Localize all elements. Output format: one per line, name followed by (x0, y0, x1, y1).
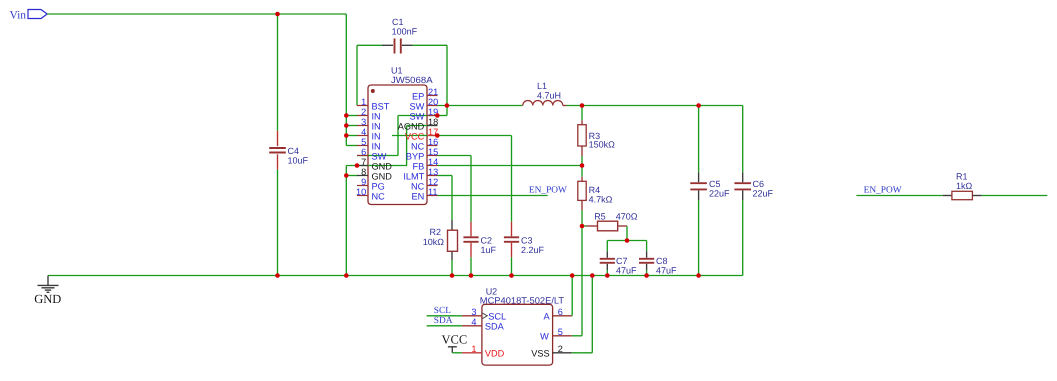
svg-text:4: 4 (361, 127, 366, 137)
svg-text:ILMT: ILMT (403, 171, 424, 181)
svg-text:SW: SW (409, 111, 424, 121)
svg-text:9: 9 (361, 177, 366, 187)
svg-text:11: 11 (428, 187, 438, 197)
svg-text:SW: SW (409, 101, 424, 111)
svg-text:4.7kΩ: 4.7kΩ (589, 195, 613, 205)
svg-text:1uF: 1uF (481, 245, 497, 255)
svg-text:47uF: 47uF (616, 266, 637, 276)
svg-text:2: 2 (558, 344, 563, 354)
svg-text:22uF: 22uF (709, 189, 730, 199)
svg-text:IN: IN (372, 141, 381, 151)
svg-text:L1: L1 (537, 81, 547, 91)
svg-text:C3: C3 (521, 236, 533, 246)
svg-text:MCP4018T-502E/LT: MCP4018T-502E/LT (480, 296, 565, 306)
svg-text:14: 14 (428, 157, 438, 167)
svg-text:IN: IN (372, 131, 381, 141)
svg-text:VCC: VCC (442, 332, 468, 346)
svg-text:SW: SW (372, 151, 387, 161)
svg-text:3: 3 (361, 117, 366, 127)
svg-text:SDA: SDA (434, 316, 453, 326)
svg-text:16: 16 (428, 137, 438, 147)
svg-text:EN: EN (412, 191, 425, 201)
svg-text:5: 5 (361, 137, 366, 147)
svg-text:EN_POW: EN_POW (529, 185, 567, 195)
svg-text:2: 2 (361, 107, 366, 117)
svg-text:6: 6 (558, 307, 563, 317)
svg-text:47uF: 47uF (656, 266, 677, 276)
svg-text:10kΩ: 10kΩ (423, 237, 445, 247)
svg-text:20: 20 (428, 97, 438, 107)
svg-text:C2: C2 (481, 236, 493, 246)
svg-text:NC: NC (372, 191, 386, 201)
svg-text:A: A (543, 312, 550, 322)
svg-text:IN: IN (372, 121, 381, 131)
svg-text:EN_POW: EN_POW (864, 185, 902, 195)
svg-text:U1: U1 (391, 66, 403, 76)
svg-text:10: 10 (356, 187, 366, 197)
svg-text:W: W (540, 332, 549, 342)
svg-text:7: 7 (361, 157, 366, 167)
svg-text:NC: NC (411, 141, 425, 151)
svg-text:VCC: VCC (405, 131, 425, 141)
svg-text:R5: R5 (594, 211, 606, 221)
svg-text:18: 18 (428, 117, 438, 127)
svg-text:C6: C6 (753, 179, 765, 189)
svg-text:470Ω: 470Ω (616, 211, 638, 221)
svg-text:BST: BST (372, 101, 390, 111)
svg-text:3: 3 (471, 307, 476, 317)
svg-text:IN: IN (372, 111, 381, 121)
svg-text:SDA: SDA (485, 322, 505, 332)
svg-text:C5: C5 (709, 179, 721, 189)
svg-text:VSS: VSS (531, 349, 549, 359)
svg-text:NC: NC (411, 181, 425, 191)
svg-text:VDD: VDD (485, 349, 505, 359)
svg-text:EP: EP (412, 91, 424, 101)
svg-text:100nF: 100nF (392, 27, 418, 37)
svg-text:R4: R4 (589, 185, 601, 195)
svg-text:1: 1 (361, 97, 366, 107)
svg-text:6: 6 (361, 147, 366, 157)
svg-text:FB: FB (413, 161, 425, 171)
svg-text:PG: PG (372, 181, 385, 191)
svg-text:10uF: 10uF (288, 155, 309, 165)
svg-text:BYP: BYP (406, 151, 424, 161)
svg-text:R1: R1 (956, 172, 968, 182)
svg-text:5: 5 (558, 327, 563, 337)
svg-text:Vin: Vin (10, 10, 27, 22)
svg-text:15: 15 (428, 147, 438, 157)
svg-text:JW5068A: JW5068A (391, 75, 433, 85)
svg-text:21: 21 (428, 87, 438, 97)
svg-text:SCL: SCL (434, 306, 451, 316)
svg-text:1kΩ: 1kΩ (956, 181, 973, 191)
svg-text:C8: C8 (656, 256, 668, 266)
svg-text:2.2uF: 2.2uF (521, 245, 545, 255)
svg-text:C1: C1 (392, 17, 404, 27)
svg-text:C7: C7 (616, 256, 628, 266)
svg-text:12: 12 (428, 177, 438, 187)
svg-text:13: 13 (428, 167, 438, 177)
svg-text:AGND: AGND (398, 121, 425, 131)
svg-text:GND: GND (34, 292, 61, 306)
svg-text:SCL: SCL (488, 312, 506, 322)
svg-text:R2: R2 (429, 227, 441, 237)
svg-text:C4: C4 (288, 146, 300, 156)
svg-text:22uF: 22uF (753, 189, 774, 199)
svg-text:4.7uH: 4.7uH (537, 91, 561, 101)
svg-text:150kΩ: 150kΩ (589, 140, 616, 150)
svg-text:4: 4 (471, 317, 476, 327)
svg-text:GND: GND (372, 161, 393, 171)
svg-text:1: 1 (471, 344, 476, 354)
svg-text:GND: GND (372, 171, 393, 181)
svg-text:8: 8 (361, 167, 366, 177)
